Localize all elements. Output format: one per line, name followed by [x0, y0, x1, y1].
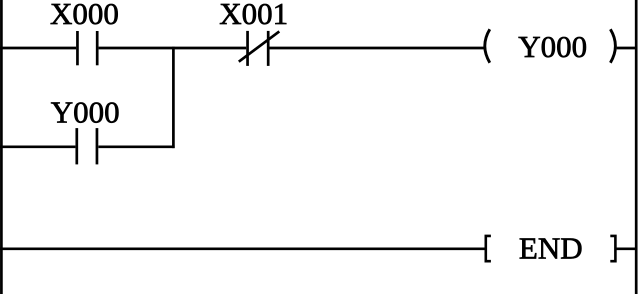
svg-text:END: END: [519, 231, 583, 266]
svg-text:Y000: Y000: [51, 94, 120, 129]
svg-text:Y000: Y000: [518, 29, 587, 64]
svg-text:X000: X000: [50, 0, 119, 31]
svg-text:X001: X001: [219, 0, 288, 31]
